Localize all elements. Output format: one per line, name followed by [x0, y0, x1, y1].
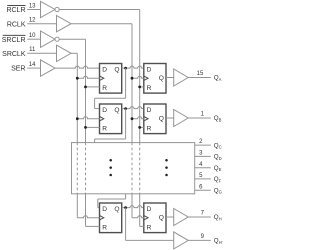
svg-text:Q: Q [159, 115, 164, 122]
svg-text:D: D [102, 107, 107, 114]
svg-text:D: D [102, 206, 107, 213]
wire FF8 Q to buffer [166, 216, 174, 218]
junction [84, 86, 87, 89]
svg-text:Q: Q [159, 75, 164, 82]
junction [138, 86, 141, 89]
inverter U1 bubble [55, 7, 59, 11]
svg-text:SRCLR: SRCLR [2, 37, 26, 44]
wire FF1 Q to FF2 D [122, 66, 144, 68]
buffer U6 (QA output) [174, 69, 189, 86]
bus RCLK (net to storage-register clocks) [131, 24, 133, 143]
svg-text:D: D [102, 67, 107, 74]
junction node A [124, 67, 127, 70]
wire reset stub FF3 [86, 126, 100, 128]
wire [188, 216, 211, 218]
ellipsis shift column [109, 159, 112, 162]
flip-flop FF2 (storage stage A) [144, 64, 166, 94]
wire FF3 Q to FF4 D [122, 107, 144, 109]
wire [188, 77, 211, 79]
buffer U7 (QB output) [174, 110, 189, 127]
inverter U3 (SRCLR) [41, 31, 56, 47]
wire [27, 52, 56, 54]
wire reset stub FF4 [140, 126, 144, 128]
wire FF7 Q down to QH' buffer [125, 208, 127, 241]
svg-text:R: R [147, 126, 152, 133]
wire [27, 9, 40, 11]
input label SRCLR (active low) [2, 35, 26, 44]
wire reset stub FF1 [86, 86, 100, 88]
wire reset stub FF7 [86, 225, 100, 227]
wire FF1 Q down to FF3 D [125, 68, 127, 98]
svg-text:Q: Q [114, 107, 119, 114]
buffer U9 (QH' output) [174, 232, 189, 249]
svg-text:10: 10 [29, 33, 36, 39]
svg-text:SER: SER [11, 66, 25, 73]
wire [188, 239, 211, 241]
junction [76, 77, 79, 80]
wire SER to FF1 D [55, 66, 100, 68]
wire [195, 189, 211, 191]
svg-text:RCLK: RCLK [7, 21, 26, 28]
svg-text:11: 11 [29, 47, 36, 53]
svg-text:SRCLK: SRCLK [2, 51, 26, 58]
wire [59, 38, 85, 40]
flip-flop FF4 (storage stage B) [144, 104, 166, 134]
wire FF2 Q to buffer [166, 77, 174, 79]
wire clock stub FF2 [132, 76, 144, 78]
wire reset stub FF2 [140, 86, 144, 88]
svg-text:R: R [102, 225, 107, 232]
flip-flop FF8 (storage stage H) [144, 203, 166, 233]
wire [195, 144, 211, 146]
svg-text:R: R [102, 85, 107, 92]
wire [188, 117, 211, 119]
inverter U3 bubble [55, 37, 59, 41]
flip-flop FF7 (shift stage H) [100, 203, 122, 233]
wire [71, 23, 132, 25]
svg-text:R: R [102, 126, 107, 133]
svg-text:RCLR: RCLR [6, 7, 25, 14]
wire [27, 67, 40, 69]
junction node H [124, 206, 127, 209]
svg-text:12: 12 [29, 18, 36, 24]
wire [195, 155, 211, 157]
wire clock stub FF3 [77, 117, 99, 119]
svg-text:Q: Q [114, 67, 119, 74]
flip-flop FF1 (shift stage A) [100, 64, 122, 94]
bus RCLR (net to storage-register resets) [139, 10, 141, 143]
wire FF4 Q to buffer [166, 117, 174, 119]
svg-text:R: R [147, 85, 152, 92]
svg-text:D: D [147, 107, 152, 114]
wire [27, 38, 40, 40]
wire [195, 178, 211, 180]
wire clock stub FF1 [77, 76, 99, 78]
svg-text:13: 13 [29, 3, 36, 9]
wire [195, 167, 211, 169]
wire clock stub FF4 [132, 117, 144, 119]
svg-text:15: 15 [197, 71, 204, 77]
svg-text:Q: Q [114, 206, 119, 213]
input label RCLR (active low) [6, 6, 25, 15]
buffer U2 (RCLK) [57, 16, 72, 32]
junction node B [124, 107, 127, 110]
svg-text:D: D [147, 67, 152, 74]
bus SRCLK (net to shift-register clocks) [76, 53, 78, 142]
wire FF7 Q to FF8 D [122, 206, 144, 208]
junction [131, 117, 134, 120]
ellipsis storage column [165, 159, 168, 162]
buffer U8 (QH output) [174, 209, 189, 226]
wire [59, 9, 140, 11]
svg-text:Q: Q [159, 214, 164, 221]
junction [138, 126, 141, 129]
buffer U4 (SRCLK) [57, 45, 72, 61]
box hidden stages C-G [72, 143, 195, 194]
inverter U1 (RCLR) [41, 1, 56, 17]
bus SRCLR (net to shift-register resets) [85, 39, 87, 142]
buffer U5 (SER) [41, 60, 56, 76]
svg-text:D: D [147, 206, 152, 213]
svg-text:14: 14 [29, 62, 36, 68]
wire [71, 52, 77, 54]
junction [131, 77, 134, 80]
wire reset stub FF8 [140, 225, 144, 227]
wire FF3 Q down into stage box [125, 109, 127, 139]
junction [76, 117, 79, 120]
wire clock stub FF8 [132, 216, 144, 218]
junction [84, 126, 87, 129]
wire clock stub FF7 [77, 216, 99, 218]
flip-flop FF3 (shift stage B) [100, 104, 122, 134]
wire [27, 23, 56, 25]
svg-text:R: R [147, 225, 152, 232]
wire stage G Q down to FF7 D [125, 194, 127, 199]
